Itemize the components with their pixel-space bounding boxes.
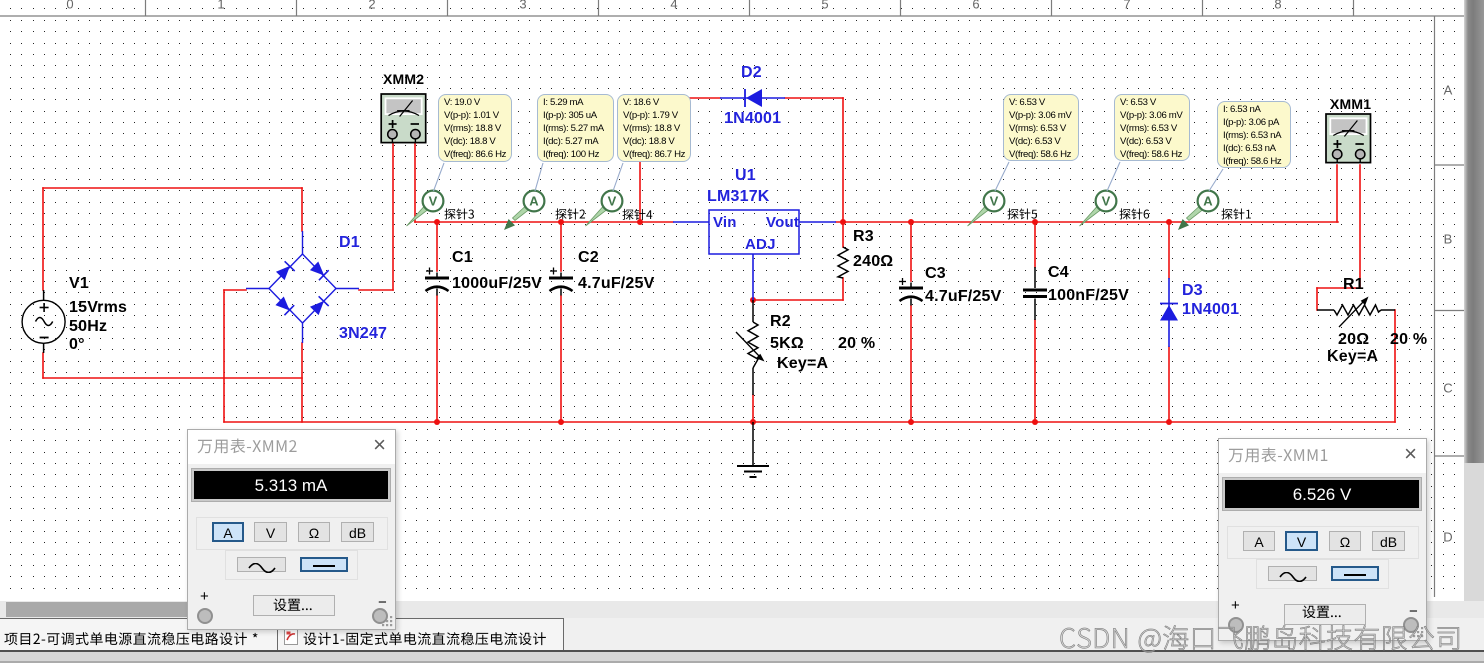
svg-text:Vin: Vin	[713, 214, 737, 231]
svg-text:C1: C1	[452, 249, 473, 266]
svg-text:8: 8	[1274, 0, 1281, 12]
svg-text:XMM1: XMM1	[1330, 96, 1371, 112]
svg-text:15Vrms: 15Vrms	[69, 299, 127, 316]
svg-text:A: A	[529, 194, 539, 209]
svg-text:1: 1	[217, 0, 224, 12]
svg-text:R2: R2	[770, 313, 791, 330]
svg-text:7: 7	[1123, 0, 1130, 12]
svg-text:5: 5	[821, 0, 828, 12]
svg-text:20 %: 20 %	[1390, 331, 1427, 348]
svg-text:4: 4	[670, 0, 677, 12]
svg-text:2: 2	[368, 0, 375, 12]
svg-text:ADJ: ADJ	[745, 236, 776, 253]
svg-text:C2: C2	[578, 249, 599, 266]
svg-text:5KΩ: 5KΩ	[770, 335, 804, 352]
svg-text:4.7uF/25V: 4.7uF/25V	[578, 275, 655, 292]
svg-text:3N247: 3N247	[339, 325, 387, 342]
svg-text:240Ω: 240Ω	[853, 253, 893, 270]
svg-text:1N4001: 1N4001	[1182, 301, 1239, 318]
svg-text:V1: V1	[69, 275, 89, 292]
svg-text:Key=A: Key=A	[777, 355, 828, 372]
svg-text:0: 0	[66, 0, 73, 12]
svg-text:Vout: Vout	[766, 214, 799, 231]
svg-text:Key=A: Key=A	[1327, 348, 1378, 365]
svg-text:A: A	[1444, 83, 1453, 98]
svg-text:20Ω: 20Ω	[1338, 331, 1369, 348]
svg-text:R3: R3	[853, 228, 874, 245]
svg-text:50Hz: 50Hz	[69, 318, 107, 335]
svg-text:1000uF/25V: 1000uF/25V	[452, 275, 542, 292]
svg-text:4.7uF/25V: 4.7uF/25V	[925, 288, 1002, 305]
svg-text:D1: D1	[339, 234, 360, 251]
svg-text:D2: D2	[741, 64, 762, 81]
svg-text:A: A	[1203, 194, 1213, 209]
svg-text:V: V	[990, 194, 999, 209]
svg-text:100nF/25V: 100nF/25V	[1048, 287, 1129, 304]
svg-text:R1: R1	[1343, 276, 1364, 293]
svg-text:1N4001: 1N4001	[724, 110, 781, 127]
svg-text:D: D	[1443, 530, 1452, 545]
svg-text:C: C	[1443, 381, 1452, 396]
svg-text:V: V	[1102, 194, 1111, 209]
svg-text:6: 6	[972, 0, 979, 12]
svg-text:0°: 0°	[69, 336, 85, 353]
svg-text:LM317K: LM317K	[707, 188, 770, 205]
svg-text:3: 3	[519, 0, 526, 12]
svg-text:B: B	[1444, 232, 1453, 247]
svg-text:V: V	[608, 194, 617, 209]
svg-text:C3: C3	[925, 265, 946, 282]
svg-text:V: V	[429, 194, 438, 209]
svg-text:20 %: 20 %	[838, 335, 875, 352]
svg-text:D3: D3	[1182, 282, 1203, 299]
svg-text:C4: C4	[1048, 264, 1069, 281]
svg-text:XMM2: XMM2	[383, 71, 424, 87]
svg-text:U1: U1	[735, 167, 756, 184]
